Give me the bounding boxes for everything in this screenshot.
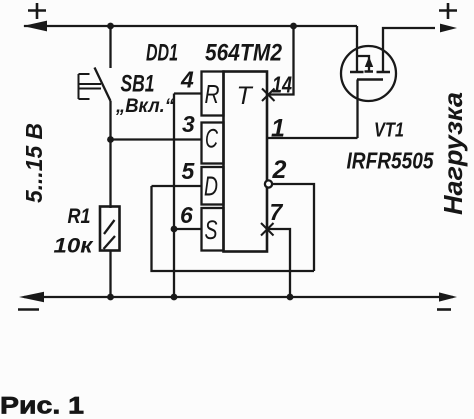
wire node to R1 [109, 140, 111, 209]
wire drain to rail right [383, 28, 435, 72]
wire pin4 R [174, 92, 202, 94]
transistor substrate arrow [357, 56, 369, 72]
node pin6 bottom [171, 294, 178, 301]
wire bottom rail [24, 296, 453, 298]
arrowhead bottom-left [19, 292, 44, 302]
wire top rail [24, 25, 357, 27]
plus symbol left [28, 3, 46, 19]
pin 14 cross [262, 89, 275, 102]
wire pin6 S [174, 228, 202, 230]
wire R1 to bottom rail [109, 251, 111, 298]
svg-text:564ТМ2: 564ТМ2 [205, 40, 283, 67]
arrowhead bottom-right [439, 292, 457, 301]
IC DD1 cell D [202, 167, 224, 205]
IC DD1 body [224, 72, 268, 252]
svg-text:C: C [205, 124, 218, 154]
wire pin14 to rail [268, 26, 294, 95]
node switch output [107, 136, 114, 143]
wire pin1 to gate [267, 137, 358, 139]
transistor drain tick [377, 71, 391, 74]
svg-text:Нагрузка: Нагрузка [438, 92, 468, 215]
transistor source tick [350, 71, 364, 74]
node top rail / switch junction [107, 23, 114, 30]
arrowhead top-left [23, 21, 47, 32]
svg-text:D: D [204, 171, 218, 202]
resistor R1 [100, 207, 120, 251]
svg-text:7: 7 [270, 199, 284, 225]
svg-text:5: 5 [182, 158, 196, 184]
arrowhead top-right [440, 24, 457, 33]
node pin7 bottom [287, 294, 294, 301]
svg-text:3: 3 [182, 111, 195, 137]
svg-text:R1: R1 [68, 205, 91, 228]
svg-text:14: 14 [272, 72, 292, 98]
wire R-S ground tie [173, 94, 175, 298]
wire pin5 D [152, 185, 202, 187]
svg-text:IRFR5505: IRFR5505 [347, 148, 435, 174]
svg-text:5...15 В: 5...15 В [21, 123, 47, 203]
svg-text:10к: 10к [54, 235, 95, 258]
svg-text:4: 4 [180, 67, 194, 93]
IC DD1 cell S [202, 208, 224, 251]
transistor VT1 circle [341, 46, 396, 101]
svg-text:2: 2 [272, 156, 287, 184]
svg-text:Рис. 1: Рис. 1 [0, 393, 84, 419]
switch SB1 blade [95, 68, 111, 102]
wire node to pin3 C [111, 138, 203, 140]
svg-text:R: R [205, 79, 220, 109]
IC DD1 cell C [202, 123, 224, 164]
svg-text:6: 6 [180, 202, 193, 228]
node R1 bottom [107, 294, 114, 301]
svg-text:Т: Т [237, 82, 254, 110]
IC DD1 cell R [202, 72, 224, 116]
svg-text:1: 1 [271, 115, 285, 143]
node pin14 rail [290, 23, 297, 30]
pin 2 bubble [265, 180, 272, 187]
wire rail to switch [109, 26, 111, 68]
switch SB1 actuator [79, 74, 102, 99]
wire switch to node [109, 101, 111, 140]
svg-text:DD1: DD1 [146, 40, 178, 67]
wire pin5 route down-right [152, 186, 315, 271]
pin 7 cross [261, 223, 274, 236]
transistor gate line [357, 78, 383, 80]
svg-text:„Вкл.“: „Вкл.“ [115, 96, 174, 117]
svg-text:SB1: SB1 [121, 71, 155, 98]
wire gate lead [356, 80, 358, 139]
minus symbol right [437, 308, 451, 311]
svg-text:S: S [205, 215, 218, 245]
wire pin7 to bottom rail [267, 229, 290, 297]
wire pin2 route [272, 184, 314, 271]
node pin6 [171, 226, 178, 233]
minus symbol left [18, 308, 39, 311]
svg-text:VT1: VT1 [374, 119, 404, 142]
wire rail to source [356, 26, 358, 72]
plus symbol right [439, 3, 457, 19]
